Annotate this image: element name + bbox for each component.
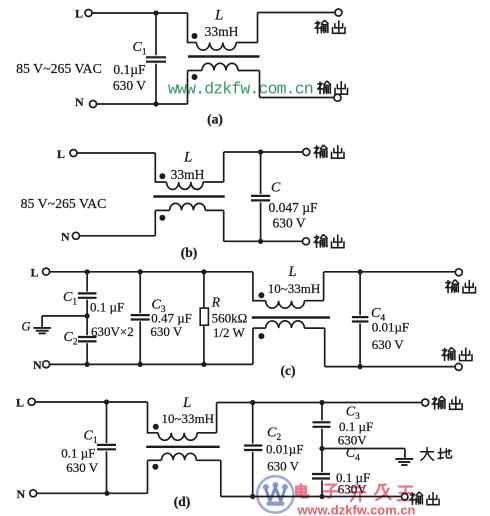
resistor R (c) 560k xyxy=(200,272,208,365)
capacitor C2 (d) xyxy=(244,403,262,497)
common-mode choke L (a) left vertical top xyxy=(187,13,189,43)
choke L (a) core xyxy=(188,55,260,57)
wire (a) L rail xyxy=(92,12,188,14)
value label 33mH (b) xyxy=(171,167,205,182)
watermark blue W logo xyxy=(257,476,293,512)
value label 630V C2 (d) xyxy=(267,459,300,474)
choke L (d) bottom winding xyxy=(148,453,221,493)
junction node (a) top xyxy=(153,10,158,15)
svg-text:33mH: 33mH xyxy=(205,24,239,39)
wire (b) choke out bottom xyxy=(224,210,303,241)
junction node (c) top C3 xyxy=(138,269,143,274)
value label 10~33mH (c) xyxy=(268,281,321,296)
value label 0.01uF (c) xyxy=(372,320,409,335)
capacitor C4 (c) xyxy=(352,272,369,367)
phase dot (d) bottom xyxy=(152,464,158,470)
label dadi (d) xyxy=(421,448,452,461)
svg-text:(b): (b) xyxy=(181,245,198,260)
label L (b) xyxy=(183,150,192,166)
svg-text:560kΩ: 560kΩ xyxy=(212,310,248,325)
svg-text:L: L xyxy=(182,395,191,411)
phase dot (a) bottom xyxy=(192,74,198,80)
value label 560kOhm (c) xyxy=(212,310,248,325)
svg-text:10~33mH: 10~33mH xyxy=(268,281,321,296)
svg-text:0.01µF: 0.01µF xyxy=(372,320,409,335)
label (a) xyxy=(207,112,223,127)
value label 0.1uF (a) xyxy=(113,62,146,77)
wire (b) choke out top xyxy=(224,152,303,182)
svg-text:N: N xyxy=(33,358,42,372)
terminal N (d) xyxy=(17,487,37,501)
label 85V~265VAC (b) xyxy=(21,196,107,211)
value label 0.047uF (b) xyxy=(269,200,319,215)
svg-text:0.1 µF: 0.1 µF xyxy=(61,446,95,461)
choke L (b) core xyxy=(153,195,224,197)
value label 630V C1 (d) xyxy=(66,460,99,475)
wire (c) ground branch xyxy=(42,316,87,328)
svg-text:(d): (d) xyxy=(174,494,191,509)
svg-text:C1: C1 xyxy=(84,429,98,447)
svg-text:0.1 µF: 0.1 µF xyxy=(90,300,124,315)
terminal L (d) xyxy=(16,395,35,409)
wire (a) N rail xyxy=(97,103,188,105)
junction node (b) bottom xyxy=(258,239,263,244)
choke L (c) bottom winding xyxy=(253,321,325,365)
value label 630Vx2 (c) xyxy=(91,324,134,339)
svg-text:10~33mH: 10~33mH xyxy=(162,411,215,426)
wire (c) choke out bottom xyxy=(325,328,455,367)
wire (d) top rail left xyxy=(35,401,147,403)
ground G (c) xyxy=(33,328,51,334)
svg-text:630V×2: 630V×2 xyxy=(91,324,134,339)
wire (b) N rail xyxy=(79,235,155,237)
wire (c) choke out top xyxy=(324,272,456,301)
terminal N (b) xyxy=(61,229,79,243)
label (b) xyxy=(181,245,198,260)
value label 1/2W (c) xyxy=(213,325,246,340)
svg-text:630 V: 630 V xyxy=(113,78,146,93)
svg-text:630 V: 630 V xyxy=(150,324,183,339)
svg-text:0.1µF: 0.1µF xyxy=(113,62,146,77)
junction node (b) top xyxy=(258,149,263,154)
value label 630V C4 (c) xyxy=(372,337,405,352)
svg-text:G: G xyxy=(22,320,31,334)
label C3 (d) xyxy=(346,405,360,423)
terminal output (d) top xyxy=(422,397,462,410)
svg-text:630 V: 630 V xyxy=(267,459,300,474)
phase dot (a) top xyxy=(192,33,198,39)
label L (d) xyxy=(182,395,191,411)
wire (c) bottom rail xyxy=(50,363,253,365)
phase dot (c) top xyxy=(258,292,264,298)
svg-text:L: L xyxy=(183,150,192,166)
junction node (d) earth xyxy=(319,446,324,451)
earth ground symbol (d) xyxy=(395,459,413,465)
value label 0.01uF (d) xyxy=(266,441,303,456)
label L (a) xyxy=(214,8,223,24)
junction node (d) bot C2 xyxy=(250,494,255,499)
junction node (c) C4 top xyxy=(358,269,363,274)
wire (a) choke out top xyxy=(258,13,336,43)
svg-text:N: N xyxy=(17,487,26,501)
junction node (c) top R xyxy=(201,269,206,274)
terminal L (c) xyxy=(31,266,50,280)
junction node (c) bot C3 xyxy=(138,362,143,367)
label C2 (c) xyxy=(64,330,78,348)
label 85V~265VAC (a) xyxy=(16,61,102,76)
value label 630V C3 (d) xyxy=(338,432,368,447)
junction node (a) bottom xyxy=(153,101,158,106)
capacitor C1 (c) xyxy=(78,272,97,316)
node G junction (c) xyxy=(85,313,90,318)
capacitor C4 (d) xyxy=(312,449,330,497)
junction node (c) bot R xyxy=(201,362,206,367)
value label 0.1uF C1 (d) xyxy=(61,446,95,461)
svg-text:L: L xyxy=(288,264,297,280)
label C4 (d) xyxy=(346,446,360,464)
wire (d) earth branch xyxy=(322,449,405,459)
phase dot (c) bottom xyxy=(258,333,264,339)
value label 630V C4 (d) xyxy=(338,481,368,496)
svg-text:C1: C1 xyxy=(63,290,77,308)
svg-text:630 V: 630 V xyxy=(273,215,306,230)
svg-text:L: L xyxy=(57,147,65,161)
watermark green url xyxy=(168,80,313,99)
terminal L (a) xyxy=(75,7,92,21)
svg-text:R: R xyxy=(211,295,221,310)
junction node (d) top C1 xyxy=(104,399,109,404)
value label 10~33mH (d) xyxy=(162,411,215,426)
label C1 (a) xyxy=(133,40,147,58)
terminal L (b) xyxy=(57,147,77,161)
terminal N (a) xyxy=(75,95,97,109)
svg-text:L: L xyxy=(214,8,223,24)
svg-text:C2: C2 xyxy=(64,330,78,348)
label C4 (c) xyxy=(371,306,385,324)
wire (b) L rail xyxy=(77,152,155,154)
choke L (d) top winding xyxy=(148,433,217,441)
junction node (d) bot C1 xyxy=(104,491,109,496)
junction node (c) C4 bottom xyxy=(358,364,363,369)
svg-text:0.047 µF: 0.047 µF xyxy=(269,200,319,215)
choke L (a) bottom winding xyxy=(188,63,260,104)
phase dot (b) top xyxy=(159,173,165,179)
choke L (b) bottom winding xyxy=(155,203,223,235)
value label 0.1uF C3 (d) xyxy=(339,419,373,434)
label L (c) xyxy=(288,264,297,280)
phase dot (d) top xyxy=(153,424,159,430)
choke L (a) top winding xyxy=(188,43,258,51)
value label 33mH (a) xyxy=(205,24,239,39)
wire (d) bottom rail left xyxy=(37,492,148,494)
label C1 (c) xyxy=(63,290,77,308)
svg-text:85 V~265 VAC: 85 V~265 VAC xyxy=(16,61,102,76)
terminal output (c) bottom xyxy=(442,348,472,371)
junction node (d) top C3 xyxy=(319,400,324,405)
junction node (d) top C2 xyxy=(250,400,255,405)
wire (d) choke out top xyxy=(217,403,422,433)
phase dot (b) bottom xyxy=(159,215,165,221)
label R (c) xyxy=(211,295,221,310)
junction node (d) bot C4 xyxy=(319,494,324,499)
label C3 (c) xyxy=(152,298,166,316)
choke L (b) left vertical top xyxy=(154,153,156,183)
svg-text:www.dzkfw.com.cn: www.dzkfw.com.cn xyxy=(168,80,313,99)
wire (c) top rail xyxy=(50,271,253,273)
svg-text:85 V~265 VAC: 85 V~265 VAC xyxy=(21,196,107,211)
capacitor C1 (a) 0.1uF/630V xyxy=(146,13,166,104)
junction node (c) top C1 xyxy=(85,269,90,274)
capacitor C2 (c) xyxy=(78,316,97,365)
value label 0.1uF (c) xyxy=(90,300,124,315)
wire (a) choke out bottom xyxy=(260,71,335,98)
watermark pink text dian-zi-kai-fa-wang xyxy=(296,484,413,501)
junction node (c) bot C2 xyxy=(85,362,90,367)
wire (d) choke out bottom xyxy=(221,460,401,496)
value label 630V (b) xyxy=(273,215,306,230)
svg-text:630 V: 630 V xyxy=(66,460,99,475)
capacitor C3 (d) xyxy=(313,403,331,449)
choke L (d) left vertical top xyxy=(147,402,149,434)
watermark red url xyxy=(297,503,416,516)
terminal output (b) top xyxy=(303,145,344,158)
label C2 (d) xyxy=(267,426,281,444)
choke L (c) core xyxy=(252,316,330,318)
svg-text:N: N xyxy=(61,229,70,243)
terminal output (d) bottom xyxy=(402,492,440,504)
label (d) xyxy=(174,494,191,509)
svg-text:33mH: 33mH xyxy=(171,167,205,182)
label (c) xyxy=(281,363,296,378)
svg-text:C: C xyxy=(271,181,281,196)
terminal output (b) bottom xyxy=(303,235,344,248)
svg-text:C1: C1 xyxy=(133,40,147,58)
svg-text:0.01µF: 0.01µF xyxy=(266,441,303,456)
label C (b) xyxy=(271,181,281,196)
terminal N (c) xyxy=(33,358,50,372)
svg-text:L: L xyxy=(16,395,24,409)
choke L (c) top winding xyxy=(253,301,324,309)
svg-text:N: N xyxy=(75,95,84,109)
value label 0.47uF (c) xyxy=(151,310,192,325)
svg-text:(c): (c) xyxy=(281,363,296,378)
choke L (c) left vertical top xyxy=(252,272,254,302)
label G (c) xyxy=(22,320,31,334)
label C1 (d) xyxy=(84,429,98,447)
terminal output (a) top xyxy=(315,9,345,33)
capacitor C3 (c) xyxy=(131,272,150,365)
value label 630V C3 (c) xyxy=(150,324,183,339)
svg-text:1/2 W: 1/2 W xyxy=(213,325,246,340)
terminal output (a) bottom xyxy=(318,81,348,101)
svg-text:L: L xyxy=(31,266,39,280)
capacitor C (b) 0.047uF/630V xyxy=(251,152,270,241)
choke L (d) core xyxy=(146,446,220,448)
terminal output (c) top xyxy=(446,269,476,293)
capacitor C1 (d) xyxy=(97,402,116,493)
value label 630V (a) xyxy=(113,78,146,93)
svg-text:630V: 630V xyxy=(338,481,368,496)
svg-text:www.dzkfw.com.cn: www.dzkfw.com.cn xyxy=(297,503,416,516)
svg-text:L: L xyxy=(75,7,83,21)
value label 0.1uF C4 (d) xyxy=(336,470,370,485)
choke L (b) top winding xyxy=(155,182,223,189)
svg-text:630 V: 630 V xyxy=(372,337,405,352)
svg-text:(a): (a) xyxy=(207,112,223,127)
